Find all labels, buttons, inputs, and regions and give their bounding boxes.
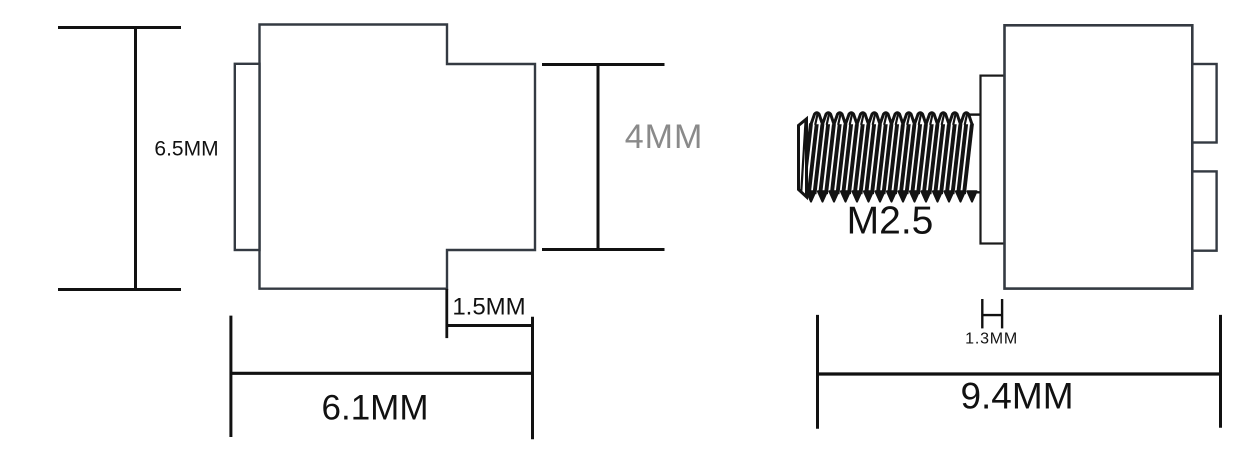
- dimension 4MM top cap line: [542, 63, 665, 66]
- dimension 1.5MM line: [447, 324, 533, 327]
- collar between thread and body: [981, 76, 1005, 244]
- dimension 9.4MM line: [818, 372, 1221, 375]
- svg-text:6.1MM: 6.1MM: [322, 388, 429, 427]
- left view body outline: [260, 25, 536, 289]
- svg-text:4MM: 4MM: [625, 118, 704, 156]
- svg-text:1.5MM: 1.5MM: [452, 294, 525, 321]
- svg-text:9.4MM: 9.4MM: [960, 376, 1073, 417]
- right view body: [1005, 25, 1193, 288]
- svg-text:1.3MM: 1.3MM: [965, 331, 1018, 348]
- dimension 1.3MM right tick: [1001, 299, 1003, 328]
- right view tab 2: [1192, 171, 1216, 250]
- dimension 4MM bottom cap line: [542, 248, 665, 251]
- right view tab 1: [1192, 64, 1216, 143]
- screw thread top crest zigzag outline: [811, 113, 972, 125]
- screw thread bottom crest teeth (solid triangles): [806, 191, 976, 201]
- screw thread crest inner flank slivers: [815, 114, 967, 125]
- svg-text:M2.5: M2.5: [847, 200, 934, 243]
- left view left tab: [235, 64, 260, 250]
- dimension 6.1MM left extension line: [229, 316, 232, 437]
- screw thread top crest band (white fill): [811, 113, 972, 125]
- svg-text:6.5MM: 6.5MM: [154, 137, 218, 160]
- dimension 9.4MM left extension line: [816, 315, 819, 429]
- screw thread flank lines: [803, 124, 972, 195]
- screw thread left chamfer: [799, 119, 807, 197]
- screw thread top edge to collar: [969, 113, 982, 115]
- dimension 1.5MM left tick (below body step): [445, 289, 448, 338]
- screw thread chamfer inner facet line: [801, 121, 805, 194]
- screw thread bottom edge to collar: [969, 191, 982, 193]
- dimension 4MM vertical line: [597, 65, 600, 249]
- dimension 1.3MM left tick: [981, 299, 983, 328]
- dimension 6.5MM top cap line: [58, 26, 181, 29]
- dimension 6.5MM bottom cap line: [58, 288, 181, 291]
- dimension 9.4MM right extension line: [1219, 315, 1222, 428]
- dimension 6.1MM right extension line: [531, 317, 534, 440]
- dimension 6.5MM vertical line: [134, 28, 137, 289]
- dimension 1.3MM crossbar: [982, 314, 1002, 316]
- dimension 6.1MM line: [231, 372, 533, 375]
